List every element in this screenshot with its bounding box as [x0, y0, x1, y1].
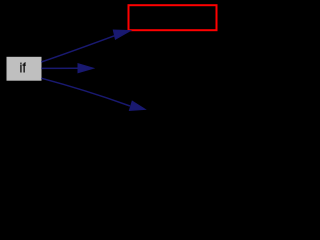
- wire edge if->node3: [41, 78, 130, 106]
- arrowhead edge2: [78, 64, 94, 73]
- wire edge if->node2: [41, 67, 80, 69]
- arrowhead edge3: [129, 101, 145, 110]
- node truncated (red border box): [129, 5, 217, 30]
- wire edge if->node1: [41, 34, 118, 62]
- node if (root node, grey fill): [7, 57, 42, 81]
- arrowhead edge1: [113, 30, 130, 39]
